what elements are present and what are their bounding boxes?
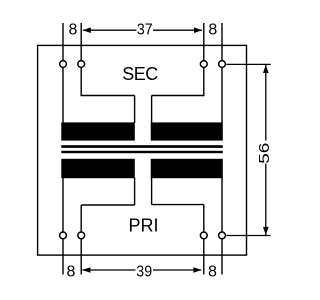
svg-text:SEC: SEC: [122, 64, 158, 84]
svg-text:PRI: PRI: [128, 216, 158, 236]
svg-text:39: 39: [136, 264, 152, 281]
svg-text:8: 8: [208, 264, 217, 281]
svg-text:37: 37: [137, 22, 153, 39]
svg-text:8: 8: [67, 264, 76, 281]
svg-text:56: 56: [255, 143, 273, 164]
svg-text:8: 8: [69, 22, 78, 39]
svg-text:8: 8: [208, 22, 217, 39]
